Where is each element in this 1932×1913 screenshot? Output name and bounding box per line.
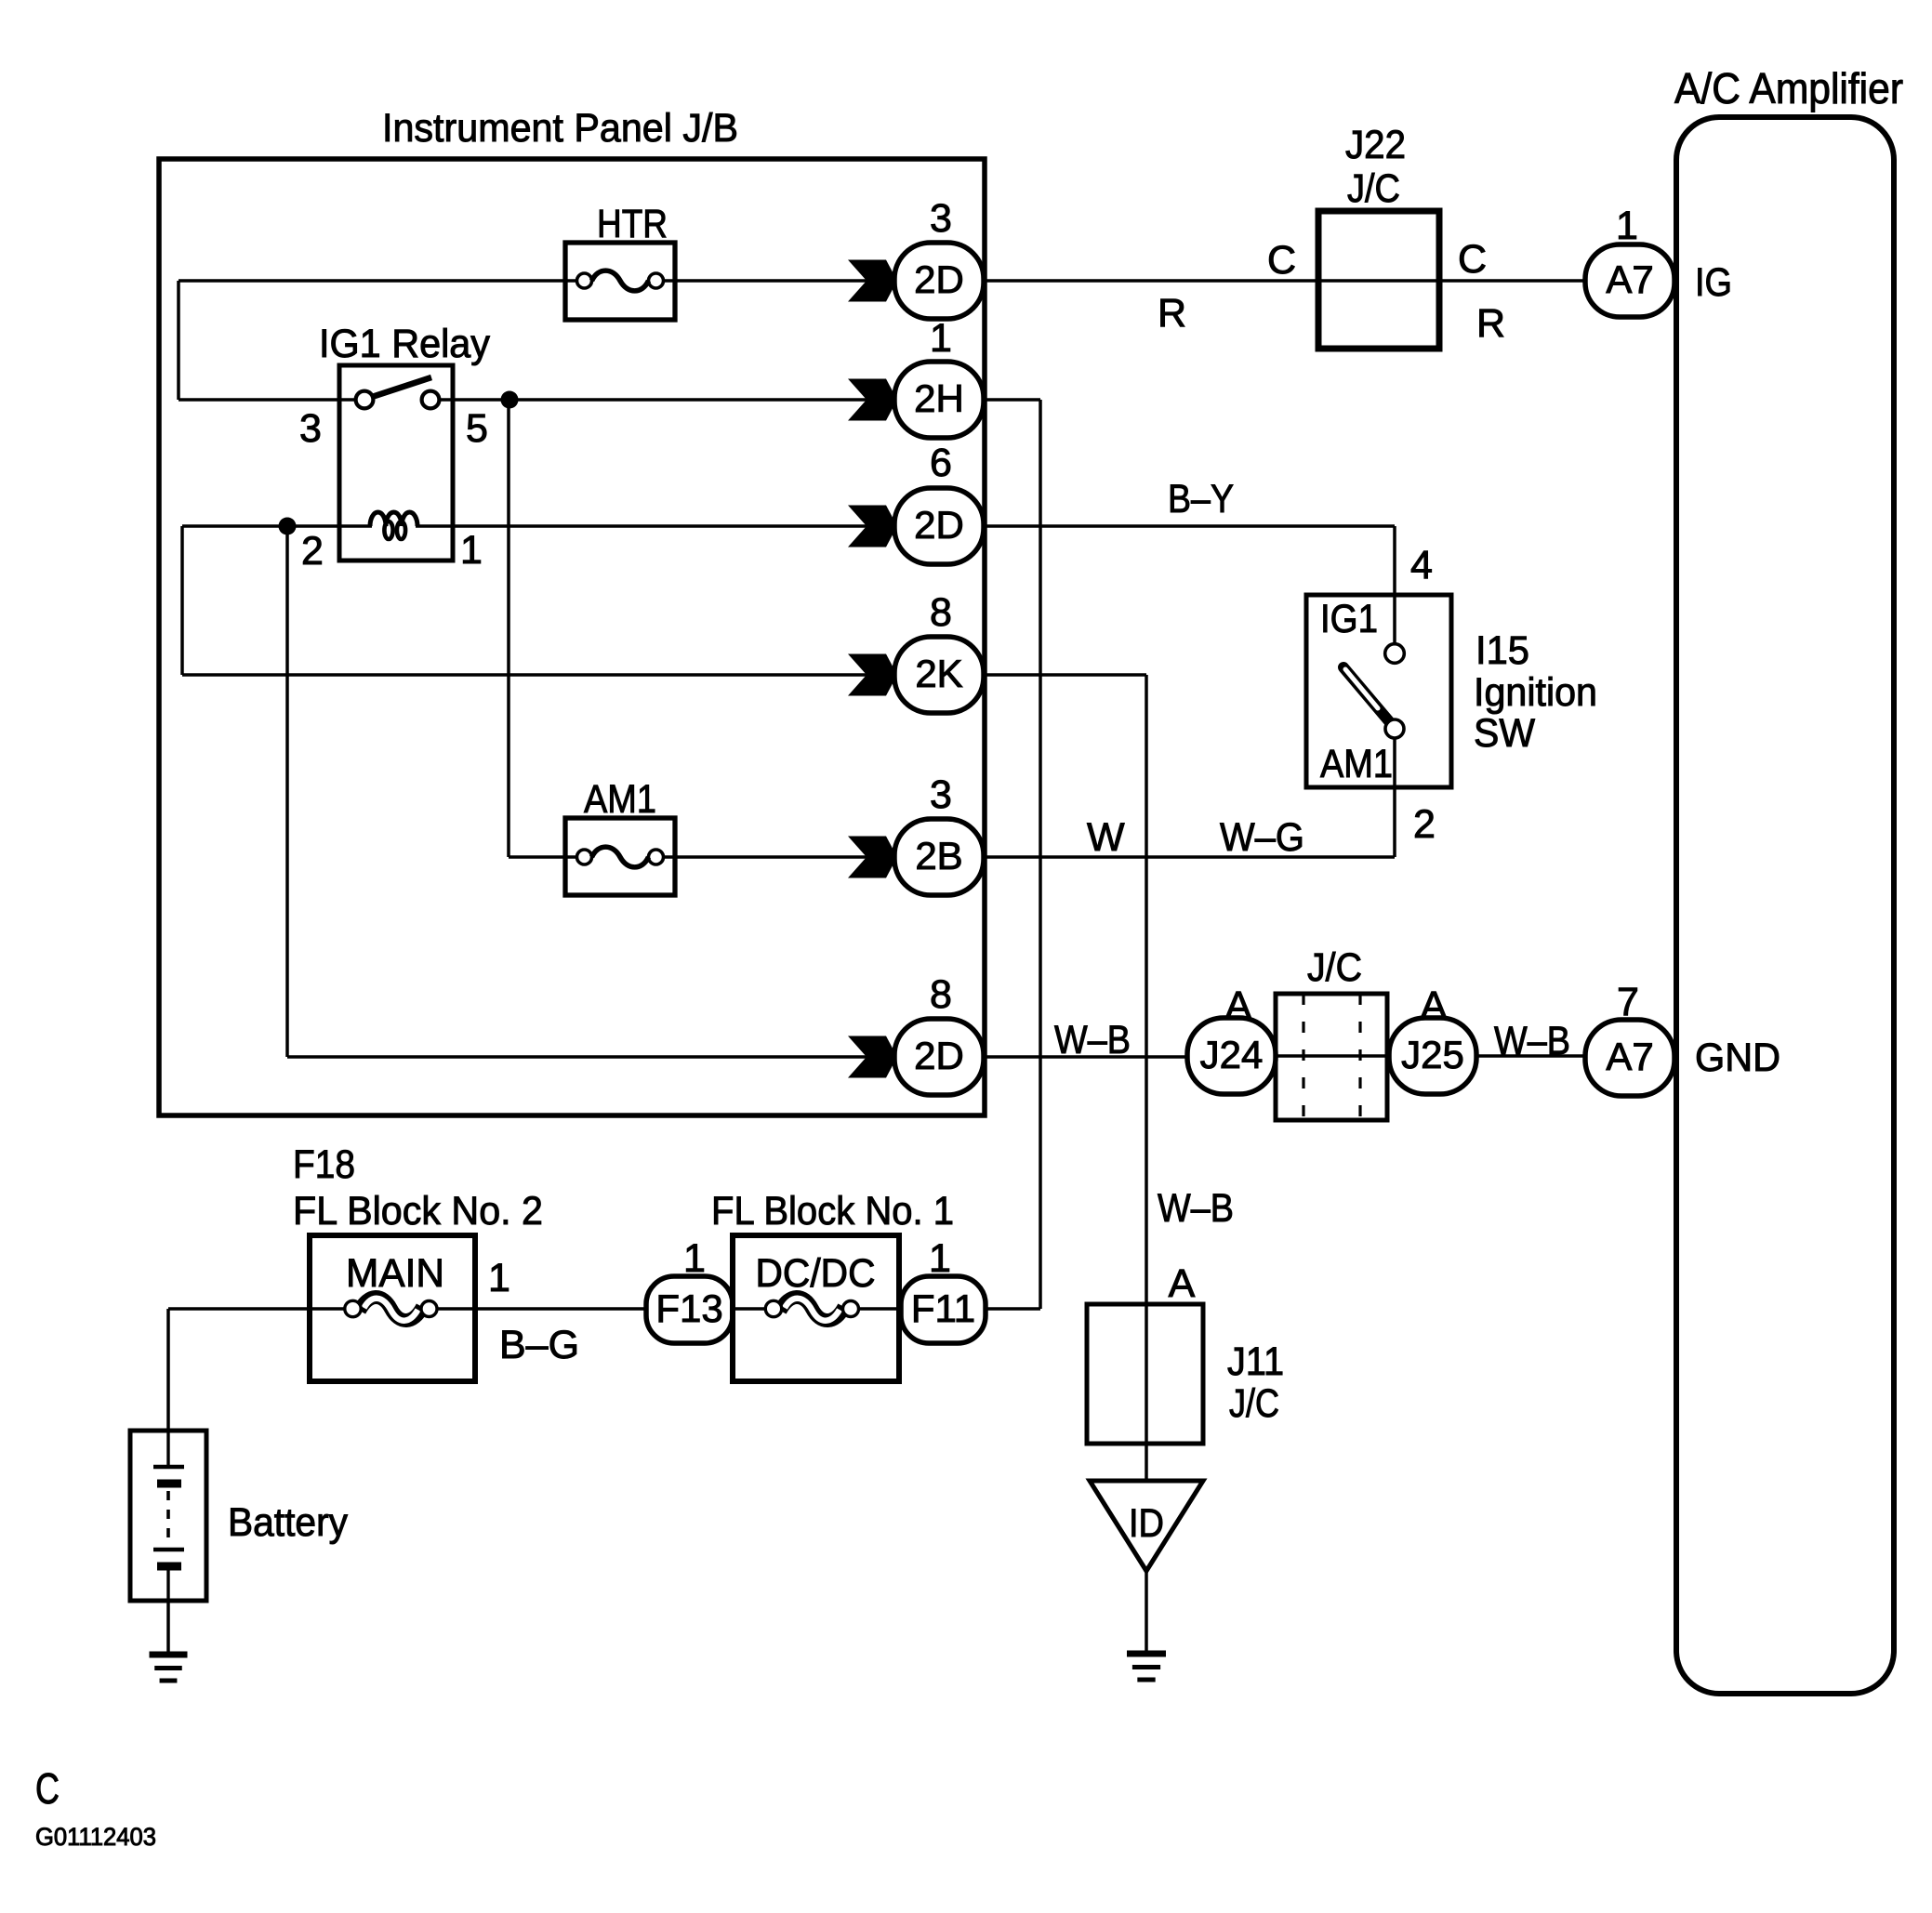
fuse AM1 element	[577, 847, 664, 867]
wire node 2 branch down to lower 2D	[287, 526, 894, 1057]
label W-B (vertical run)	[1158, 1186, 1234, 1231]
label MAIN	[346, 1251, 444, 1296]
wire battery to ground	[166, 1601, 170, 1653]
label IG1 Relay	[319, 322, 490, 366]
svg-text:IG1: IG1	[1320, 597, 1378, 641]
label W-B (right of J25)	[1494, 1019, 1570, 1063]
label J/C (J22)	[1347, 166, 1400, 211]
svg-text:A: A	[1225, 983, 1252, 1028]
label R left	[1158, 291, 1186, 336]
svg-text:C: C	[1458, 237, 1487, 282]
svg-text:J24: J24	[1200, 1033, 1264, 1076]
svg-text:IG1 Relay: IG1 Relay	[319, 322, 490, 366]
svg-text:2D: 2D	[914, 503, 964, 547]
svg-text:J/C: J/C	[1307, 945, 1362, 990]
label R right	[1476, 301, 1505, 346]
connector F11 oval	[901, 1276, 986, 1343]
svg-text:J11: J11	[1227, 1339, 1284, 1384]
svg-text:2H: 2H	[914, 376, 964, 420]
fuse HTR element	[577, 270, 664, 291]
svg-text:F18: F18	[293, 1142, 355, 1187]
label HTR	[597, 202, 668, 246]
svg-text:F11: F11	[911, 1286, 975, 1330]
pin A of J25	[1421, 983, 1448, 1028]
connector 2D oval	[894, 1019, 984, 1095]
svg-text:J22: J22	[1345, 123, 1406, 167]
label DC/DC	[756, 1251, 876, 1296]
fuse HTR box	[565, 243, 675, 320]
connector 2H oval	[894, 362, 984, 438]
pin 8 of connector 2D	[930, 972, 952, 1017]
A/C Amplifier box	[1676, 117, 1894, 1694]
wire row1 HTR to 2D connector	[655, 279, 894, 283]
wire AM1 fuse to 2B connector	[655, 855, 894, 859]
wire MAIN to F13 (B-G)	[437, 1307, 646, 1311]
label W-B (left of J24)	[1054, 1018, 1131, 1062]
svg-text:1: 1	[488, 1256, 510, 1300]
label C left	[1267, 238, 1296, 283]
fuse AM1 box	[565, 818, 675, 895]
ground symbol (battery)	[150, 1655, 188, 1681]
connector J24 oval	[1187, 1018, 1276, 1094]
svg-text:2K: 2K	[915, 652, 962, 695]
svg-text:A7: A7	[1606, 257, 1653, 301]
wire row3 coil to 2D connector	[453, 524, 894, 528]
pin 8 of connector 2K	[930, 590, 952, 635]
connector F13 oval	[646, 1276, 733, 1343]
label IG1 terminal	[1320, 597, 1378, 641]
label AM1 terminal	[1320, 742, 1393, 786]
relay pin 1	[460, 528, 483, 573]
svg-text:SW: SW	[1474, 711, 1535, 756]
svg-text:F13: F13	[655, 1286, 722, 1330]
wire row3 coil right lead	[416, 524, 453, 528]
wire 2D to J22 J/C (R)	[984, 279, 1318, 283]
junction connector J11 J/C box	[1087, 1304, 1203, 1444]
label J/C (J11)	[1229, 1381, 1279, 1426]
ignition switch I15 box	[1306, 595, 1451, 787]
wire row3 coil row left end	[182, 526, 372, 675]
wire ID triangle to ground	[1145, 1571, 1148, 1652]
label C right	[1458, 237, 1487, 282]
connector 2B oval	[894, 819, 984, 895]
relay pin 2	[301, 529, 324, 574]
svg-text:W–B: W–B	[1494, 1019, 1570, 1063]
pin A of J24	[1225, 983, 1252, 1028]
wire row4 to 2K connector	[182, 673, 894, 677]
label F18	[293, 1142, 355, 1187]
svg-text:G01112403: G01112403	[35, 1823, 156, 1851]
junction node 2 dot	[279, 518, 297, 535]
svg-text:HTR: HTR	[597, 202, 668, 246]
svg-text:I15: I15	[1475, 628, 1529, 673]
connector 2K oval	[894, 637, 984, 713]
wire battery to MAIN fuse	[168, 1309, 345, 1432]
svg-text:2: 2	[301, 529, 324, 574]
pin 1 of A7 IG	[1616, 204, 1638, 248]
pin 3 of connector 2D	[930, 196, 952, 241]
svg-text:R: R	[1158, 291, 1186, 336]
svg-text:1: 1	[1616, 204, 1638, 248]
svg-text:3: 3	[299, 406, 322, 451]
label A/C Amplifier	[1674, 64, 1903, 112]
label SW	[1474, 711, 1535, 756]
svg-text:A: A	[1421, 983, 1448, 1028]
svg-text:ID: ID	[1129, 1501, 1164, 1546]
relay pin 5	[466, 406, 488, 451]
pin 1 of MAIN	[488, 1256, 510, 1300]
svg-text:J/C: J/C	[1347, 166, 1400, 211]
label B-Y	[1168, 477, 1234, 521]
ignition switch blade	[1343, 667, 1389, 721]
junction node 5 dot	[501, 391, 519, 409]
arrow into connector 2D row y=566	[848, 506, 897, 548]
label J22	[1345, 123, 1406, 167]
fusible link MAIN box	[310, 1235, 475, 1381]
svg-text:W: W	[1087, 815, 1125, 860]
connector A7 (IG) oval	[1585, 244, 1674, 317]
svg-text:C: C	[1267, 238, 1296, 283]
label C (section marker)	[35, 1764, 60, 1813]
arrow into connector 2D row y=1137	[848, 1036, 897, 1078]
arrow into connector 2H row y=430	[848, 379, 897, 421]
label Battery	[228, 1500, 348, 1545]
pin 1 of connector 2H	[930, 316, 952, 361]
label W-G	[1220, 815, 1304, 860]
wire row2 relay contact row	[179, 398, 894, 402]
Instrument Panel J/B box	[159, 159, 985, 1115]
pin 4 ignition SW	[1410, 543, 1433, 587]
label IG	[1695, 260, 1732, 305]
svg-text:8: 8	[930, 972, 952, 1017]
svg-text:GND: GND	[1695, 1036, 1780, 1080]
svg-text:2B: 2B	[915, 834, 962, 877]
wire J25 to A7 (W-B)	[1476, 1054, 1585, 1058]
relay IG1 coil	[370, 512, 417, 539]
ground connector ID triangle	[1090, 1481, 1203, 1571]
connector J25 oval	[1389, 1018, 1476, 1094]
label Ignition	[1474, 670, 1597, 715]
relay pin 3	[299, 406, 322, 451]
svg-text:J25: J25	[1401, 1033, 1464, 1076]
svg-text:A7: A7	[1606, 1035, 1653, 1078]
svg-text:AM1: AM1	[584, 777, 656, 822]
svg-text:1: 1	[929, 1236, 951, 1281]
svg-text:FL Block No. 1: FL Block No. 1	[711, 1189, 954, 1234]
pin 1 of F13	[683, 1236, 706, 1281]
svg-text:R: R	[1476, 301, 1505, 346]
svg-text:FL Block No. 2: FL Block No. 2	[293, 1189, 543, 1234]
svg-text:IG: IG	[1695, 260, 1732, 305]
svg-text:2D: 2D	[914, 1034, 964, 1077]
svg-text:B–G: B–G	[499, 1323, 579, 1367]
label GND	[1695, 1036, 1780, 1080]
svg-text:W–G: W–G	[1220, 815, 1304, 860]
wire J24 to J25 through J/C	[1276, 1054, 1389, 1058]
svg-text:5: 5	[466, 406, 488, 451]
svg-text:1: 1	[460, 528, 483, 573]
svg-text:2D: 2D	[914, 257, 964, 301]
label FL Block No. 2	[293, 1189, 543, 1234]
svg-text:3: 3	[930, 772, 952, 817]
label G01112403	[35, 1823, 156, 1851]
svg-text:3: 3	[930, 196, 952, 241]
svg-text:C: C	[35, 1764, 60, 1813]
svg-text:1: 1	[930, 316, 952, 361]
svg-text:W–B: W–B	[1054, 1018, 1131, 1062]
label B-G	[499, 1323, 579, 1367]
pin A of J11	[1169, 1261, 1196, 1306]
arrow into connector 2K row y=726	[848, 654, 897, 696]
relay IG1 contacts	[356, 377, 440, 408]
fusible link DC/DC box	[733, 1235, 899, 1381]
wire DC/DC link wires	[733, 1307, 901, 1311]
connector 2D oval	[894, 243, 984, 319]
svg-text:MAIN: MAIN	[346, 1251, 444, 1296]
label W	[1087, 815, 1125, 860]
wire through J22 J/C	[1318, 279, 1439, 283]
junction connector J22 J/C box	[1318, 211, 1439, 349]
label AM1	[584, 777, 656, 822]
label Instrument Panel J/B	[382, 106, 738, 151]
svg-text:6: 6	[930, 441, 952, 485]
wire 2K to J11 ground run (W-B)	[984, 675, 1146, 1481]
ignition switch contact AM1	[1385, 719, 1404, 738]
wire J22 to A7 (R)	[1439, 279, 1585, 283]
wire node 5 branch down to AM1 fuse	[509, 400, 586, 857]
svg-text:Instrument Panel J/B: Instrument Panel J/B	[382, 106, 738, 151]
ground symbol (ID)	[1127, 1654, 1166, 1680]
label J/C (J24-J25)	[1307, 945, 1362, 990]
svg-text:DC/DC: DC/DC	[756, 1251, 876, 1296]
svg-text:2: 2	[1413, 802, 1436, 847]
svg-text:AM1: AM1	[1320, 742, 1393, 786]
wire 2H to F11 riser	[984, 400, 1040, 1309]
battery box	[130, 1431, 206, 1601]
pin 1 of F11	[929, 1236, 951, 1281]
svg-text:7: 7	[1617, 980, 1639, 1024]
connector 2D oval	[894, 488, 984, 564]
svg-text:1: 1	[683, 1236, 706, 1281]
svg-text:B–Y: B–Y	[1168, 477, 1234, 521]
connector A7 (GND) oval	[1585, 1020, 1674, 1096]
junction connector J/C box (J24-J25)	[1276, 994, 1387, 1120]
svg-text:J/C: J/C	[1229, 1381, 1279, 1426]
pin 2 ignition SW	[1413, 802, 1436, 847]
svg-text:Ignition: Ignition	[1474, 670, 1597, 715]
pin 7 of A7 GND	[1617, 980, 1639, 1024]
label FL Block No. 1	[711, 1189, 954, 1234]
pin 3 of connector 2B	[930, 772, 952, 817]
wire 2B to ignition SW pin2 (W / W-G)	[984, 729, 1395, 857]
arrow into connector 2B row y=922	[848, 837, 897, 878]
svg-text:W–B: W–B	[1158, 1186, 1234, 1231]
wire 2D to ignition SW pin4 (B-Y)	[984, 526, 1395, 653]
svg-text:8: 8	[930, 590, 952, 635]
fusible link DC/DC element	[765, 1297, 858, 1320]
wire lower 2D to J24 (W-B)	[984, 1055, 1187, 1059]
svg-text:A/C Amplifier: A/C Amplifier	[1674, 64, 1903, 112]
svg-text:4: 4	[1410, 543, 1433, 587]
battery plates	[153, 1431, 184, 1601]
pin 6 of connector 2D	[930, 441, 952, 485]
svg-text:A: A	[1169, 1261, 1196, 1306]
label J11	[1227, 1339, 1284, 1384]
svg-text:Battery: Battery	[228, 1500, 348, 1545]
relay IG1 box	[339, 365, 453, 561]
fusible link MAIN element	[345, 1297, 437, 1320]
wire row1 HTR feed left segment	[179, 281, 586, 400]
label I15	[1475, 628, 1529, 673]
ignition switch contact IG1	[1385, 644, 1405, 664]
arrow into connector 2D row y=302	[848, 260, 897, 302]
